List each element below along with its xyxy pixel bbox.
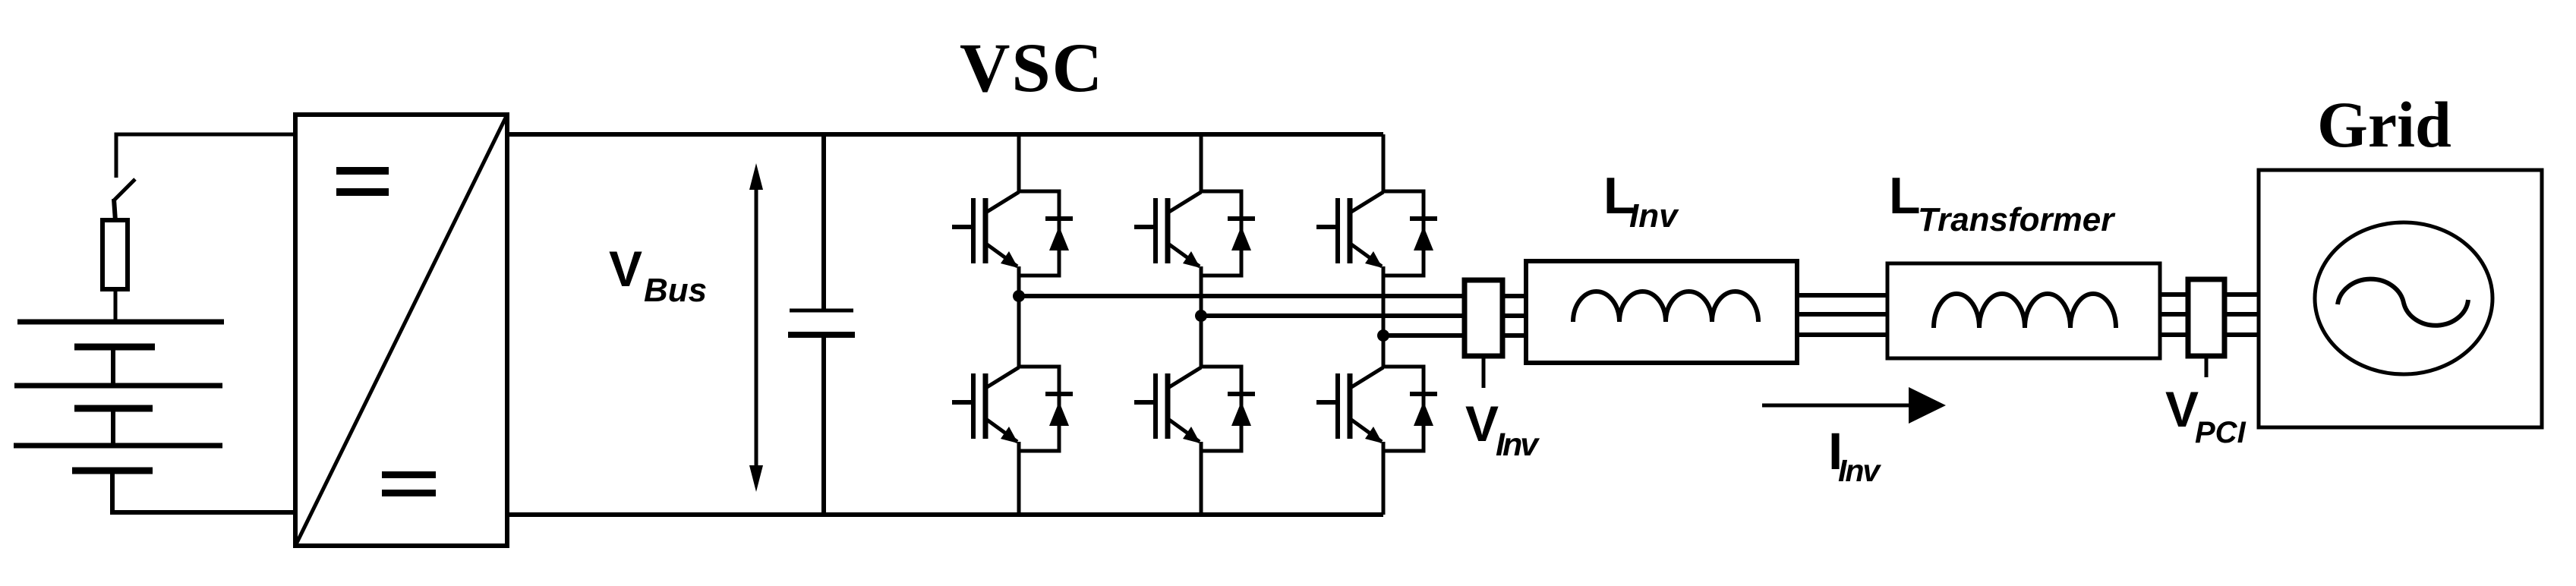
wire V_PCI to grid phase A xyxy=(2224,292,2259,297)
wire sensor to L_Inv phase B xyxy=(1502,313,1526,318)
wire phase A xyxy=(1019,294,1465,298)
battery internal wire 2 xyxy=(111,408,115,446)
diode D4 xyxy=(1201,367,1255,451)
inductor L_Transformer coil xyxy=(1934,294,2116,328)
wire battery positive to switch (top-left) xyxy=(116,134,295,178)
transistor Q3 xyxy=(1134,192,1201,268)
transistor Q4 xyxy=(1134,367,1201,443)
inductor L_Inv coil xyxy=(1573,291,1758,322)
svg-text:V: V xyxy=(2165,381,2199,437)
node phase C junction xyxy=(1377,329,1389,342)
V_Bus measurement arrow xyxy=(755,182,758,474)
capacitor C1 plates xyxy=(790,309,853,313)
svg-text:Inv: Inv xyxy=(1496,427,1540,463)
wire L_Inv to L_Transformer phase B xyxy=(1797,312,1887,317)
node phase A junction xyxy=(1013,290,1025,302)
grid box xyxy=(2259,170,2542,427)
current arrow I_Inv xyxy=(1762,404,1915,408)
leg A wire bottom xyxy=(1017,442,1021,515)
transistor Q2 xyxy=(952,367,1019,443)
wire L_Transformer to V_PCI phase C xyxy=(2160,332,2188,337)
node phase B junction xyxy=(1195,310,1207,322)
leg A wire middle xyxy=(1017,266,1021,367)
converter diagonal xyxy=(295,115,507,546)
battery internal wire 1 xyxy=(111,347,115,386)
svg-text:PCI: PCI xyxy=(2195,416,2247,449)
converter DC symbol top xyxy=(336,167,389,175)
wire DC bus negative xyxy=(507,512,1383,517)
wire battery negative to converter xyxy=(112,471,295,512)
leg B wire top xyxy=(1200,134,1203,192)
AC source G1 circle xyxy=(2315,222,2492,374)
voltage sensor V_Inv box xyxy=(1465,280,1502,356)
svg-text:V: V xyxy=(609,241,642,297)
diode D6 xyxy=(1383,367,1437,451)
transistor Q6 xyxy=(1316,367,1383,443)
diode D3 xyxy=(1201,191,1255,276)
transistor Q5 xyxy=(1316,192,1383,268)
battery B1 cell 2 plates xyxy=(14,383,222,389)
battery B1 cell 1 plates xyxy=(17,320,224,325)
wire phase B xyxy=(1201,313,1465,318)
battery B1 cell 3 plates xyxy=(14,443,222,449)
diode D5 xyxy=(1383,191,1437,276)
svg-text:Bus: Bus xyxy=(644,272,707,309)
converter DC symbol bottom xyxy=(382,471,436,478)
wire phase C xyxy=(1383,333,1465,338)
svg-text:VSC: VSC xyxy=(960,29,1104,106)
wire L_Transformer to V_PCI phase A xyxy=(2160,292,2188,297)
leg B wire middle xyxy=(1200,266,1203,367)
svg-text:Inv: Inv xyxy=(1629,197,1679,235)
wire V_PCI to grid phase C xyxy=(2224,332,2259,337)
leg C wire middle xyxy=(1382,266,1386,367)
wire L_Transformer to V_PCI phase B xyxy=(2160,312,2188,317)
wire L_Inv to L_Transformer phase C xyxy=(1797,332,1887,337)
wire L_Inv to L_Transformer phase A xyxy=(1797,293,1887,298)
svg-text:L: L xyxy=(1889,167,1921,225)
wire DC bus positive xyxy=(507,132,1383,137)
capacitor C1 top lead xyxy=(821,134,826,310)
sensor V_Inv stub xyxy=(1482,356,1486,388)
svg-text:Transformer: Transformer xyxy=(1918,201,2116,238)
wire sensor to L_Inv phase A xyxy=(1502,294,1526,298)
capacitor C1 bottom lead xyxy=(821,335,826,515)
leg A wire top xyxy=(1017,134,1021,192)
inductor L_Inv box xyxy=(1526,261,1797,363)
diode D2 xyxy=(1019,367,1073,451)
leg C wire bottom xyxy=(1382,442,1386,515)
switch S1 xyxy=(114,179,135,200)
resistor R1 xyxy=(102,220,128,289)
diode D1 xyxy=(1019,191,1073,276)
svg-text:Inv: Inv xyxy=(1838,453,1881,488)
inductor L_Transformer box xyxy=(1887,263,2160,358)
sensor V_PCI stub xyxy=(2205,356,2209,377)
transistor Q1 xyxy=(952,192,1019,268)
wire V_PCI to grid phase B xyxy=(2224,312,2259,317)
leg C wire top xyxy=(1382,134,1386,192)
DC-DC converter U1 box xyxy=(295,115,507,546)
wire resistor to battery xyxy=(114,289,118,322)
AC source G1 sine wave xyxy=(2338,279,2468,326)
leg B wire bottom xyxy=(1200,442,1203,515)
wire sensor to L_Inv phase C xyxy=(1502,333,1526,338)
svg-text:V: V xyxy=(1465,395,1499,452)
voltage sensor V_PCI box xyxy=(2188,279,2224,356)
svg-text:Grid: Grid xyxy=(2317,88,2451,161)
